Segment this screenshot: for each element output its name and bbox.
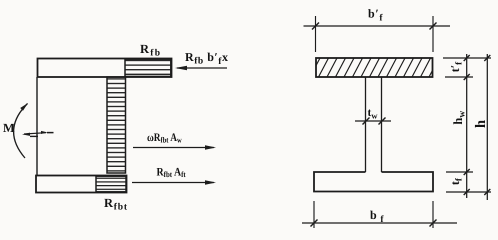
svg-text:Rfb: Rfb bbox=[140, 42, 160, 59]
svg-text:ωRfbt Aw: ωRfbt Aw bbox=[147, 132, 182, 145]
top flange (hatched) bbox=[310, 58, 439, 77]
neutral axis double arrow bbox=[22, 131, 54, 137]
bottom flange stress block (hatched) bbox=[96, 176, 126, 192]
outer vertical dimension line (h) bbox=[484, 54, 490, 200]
force arrow R_fbt A_ft (pointing right) bbox=[132, 167, 216, 185]
compression stress block (hatched) in top flange bbox=[125, 59, 171, 76]
force arrow R_fb b'_f x (pointing left) bbox=[175, 50, 228, 70]
bottom flange outline bbox=[36, 176, 127, 193]
svg-text:Rfb b′fx: Rfb b′fx bbox=[185, 50, 228, 67]
svg-text:tw: tw bbox=[368, 107, 379, 121]
web stress column (hatched) bbox=[107, 77, 126, 173]
moment arc with arrowhead bbox=[14, 103, 28, 158]
svg-text:Rfbt: Rfbt bbox=[104, 196, 128, 213]
svg-text:h: h bbox=[473, 120, 489, 128]
svg-text:b′f: b′f bbox=[368, 7, 383, 24]
svg-text:tf: tf bbox=[448, 177, 464, 185]
inner vertical dimension line (t'_f, h_w, t_f) bbox=[464, 54, 470, 198]
extension lines (right side) bbox=[443, 58, 491, 192]
web bbox=[366, 77, 382, 172]
dimension b_f (bottom) bbox=[302, 201, 457, 228]
dimension b'_f (top) bbox=[304, 7, 451, 53]
svg-text:t′f: t′f bbox=[448, 61, 464, 72]
force arrow omega R_fbt A_w (pointing right) bbox=[133, 132, 216, 150]
top flange outline bbox=[38, 59, 172, 78]
dimension t_w bbox=[355, 107, 391, 125]
svg-text:hw: hw bbox=[451, 111, 468, 125]
bottom flange bbox=[314, 172, 433, 192]
svg-text:Rfbt Aft: Rfbt Aft bbox=[157, 167, 187, 180]
left edge line of section bbox=[36, 77, 38, 176]
